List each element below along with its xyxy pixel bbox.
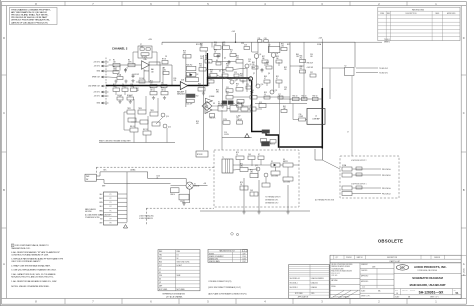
svg-text:SCHEMATIC DIAGRAM: SCHEMATIC DIAGRAM: [412, 276, 443, 280]
svg-text:R18: R18: [183, 51, 186, 53]
svg-text:NOT USED: NOT USED: [295, 293, 304, 295]
capacitor C54: [356, 186, 362, 189]
resistor R28: [223, 42, 230, 49]
ground: [221, 105, 224, 109]
svg-text:220: 220: [266, 64, 269, 66]
node +50V rail end: [355, 39, 390, 44]
resistor R26: [214, 42, 221, 49]
svg-text:330: 330: [240, 76, 243, 78]
resistor R57: [302, 95, 308, 100]
capacitor C152: [179, 194, 190, 203]
svg-text:C23: C23: [234, 72, 237, 74]
svg-text:P6: P6: [110, 214, 112, 216]
+50V rail wire: [148, 31, 355, 100]
svg-text:2K2: 2K2: [300, 58, 303, 60]
svg-text:5. REPLACE PARTS MARKED A AN: 5. REPLACE PARTS MARKED A AND FP WITH SA…: [11, 257, 63, 260]
svg-text:BRN: BRN: [99, 210, 102, 212]
capacitor C5: [139, 78, 145, 83]
svg-text:NOTES: UNLESS OTHERWISE SPECIF: NOTES: UNLESS OTHERWISE SPECIFIED.: [11, 286, 50, 288]
ground: [235, 77, 238, 81]
node label: [104, 170, 107, 172]
resistor R36: [199, 64, 206, 71]
resistor R14: [131, 84, 138, 91]
svg-text:1. ALL RESISTOR VALUES ARE IN: 1. ALL RESISTOR VALUES ARE IN OHMS 5%, 1…: [11, 280, 57, 283]
svg-text:R47: R47: [228, 78, 231, 80]
capacitor C15: [217, 54, 220, 59]
svg-text:R78 5W: R78 5W: [197, 154, 203, 156]
svg-text:C4: C4: [122, 84, 124, 86]
resistor R18: [183, 51, 191, 58]
svg-text:2ND SPKR OUT: 2ND SPKR OUT: [88, 86, 100, 88]
node label: [207, 74, 210, 78]
resistor R40: [226, 64, 233, 71]
svg-text:-IN CH 1: -IN CH 1: [94, 96, 100, 98]
svg-text:SH-126361-GX: SH-126361-GX: [290, 278, 300, 280]
application table: [289, 265, 330, 299]
svg-text:R12: R12: [113, 84, 116, 86]
svg-text:NOT USED: NOT USED: [159, 289, 168, 291]
ground: [129, 100, 132, 104]
resistor R56: [300, 56, 306, 63]
capacitor C13: [186, 99, 194, 105]
fuse F2: [342, 173, 352, 177]
ground: [257, 211, 260, 215]
svg-text:+IN CH 2: +IN CH 2: [93, 62, 100, 64]
transistor bank Q14-Q21: [124, 108, 171, 135]
resistor R3: [113, 67, 119, 74]
svg-text:2R2: 2R2: [250, 172, 253, 174]
svg-text:C32: C32: [310, 72, 313, 74]
svg-text:SH-12634-1: SH-12634-1: [290, 283, 298, 285]
resistor R63: [281, 110, 287, 113]
diode D7: [258, 154, 264, 159]
svg-text:-IN CH 2: -IN CH 2: [94, 66, 100, 68]
node label: [237, 116, 241, 118]
svg-text:R15: R15: [150, 81, 153, 83]
node psu labels: [265, 196, 280, 205]
svg-text:Q12: Q12: [275, 90, 278, 92]
resistor R52: [230, 102, 238, 111]
svg-text:R40: R40: [226, 64, 229, 66]
capacitor C46: [248, 154, 255, 159]
resistor R32: [205, 56, 212, 63]
capacitor C9: [161, 83, 167, 88]
svg-text:D10: D10: [237, 102, 240, 104]
svg-text:2K2: 2K2: [183, 53, 186, 55]
resistor R78: [196, 151, 208, 157]
capacitor C3: [132, 74, 139, 79]
tabulation block table: [208, 249, 248, 263]
svg-text:P2: P2: [110, 198, 112, 200]
wire to panel leds: [356, 68, 388, 75]
node label: [174, 78, 177, 82]
svg-text:SHEET 1 OF 1: SHEET 1 OF 1: [430, 296, 439, 298]
svg-text:10K: 10K: [150, 90, 153, 92]
svg-text:TO CH 1: TO CH 1: [384, 39, 390, 41]
svg-text:D4: D4: [159, 279, 161, 281]
svg-text:R41: R41: [252, 62, 255, 64]
node label: [310, 54, 313, 58]
svg-text:R54: R54: [241, 103, 244, 105]
thermal breaker S3: [262, 142, 270, 147]
svg-text:R43: R43: [266, 62, 269, 64]
svg-text:10U: 10U: [248, 61, 251, 63]
svg-text:Q7: Q7: [253, 73, 255, 75]
svg-text:47: 47: [264, 78, 266, 80]
svg-text:A: A: [3, 262, 5, 266]
svg-text:R17: R17: [136, 88, 139, 90]
svg-text:TO LED CH 2: TO LED CH 2: [379, 68, 388, 70]
wire driver cluster interconnect: [206, 42, 290, 105]
bias amp Q5: [205, 95, 214, 103]
svg-text:1K: 1K: [230, 52, 232, 54]
node label: [109, 59, 111, 61]
svg-text:VENDOR: VENDOR: [434, 257, 440, 259]
svg-text:L1: L1: [159, 268, 161, 270]
wire input stage lower: [116, 86, 134, 98]
svg-text:REFERENCE DESIGNATION: REFERENCE DESIGNATION: [163, 293, 186, 296]
svg-text:R32: R32: [159, 258, 162, 260]
ground: [152, 96, 155, 100]
resistor R70: [240, 164, 248, 172]
svg-text:R37: R37: [262, 56, 265, 58]
diode D2: [186, 72, 198, 76]
node label: [253, 73, 255, 75]
svg-text:560: 560: [262, 58, 265, 60]
transistor Q4: [271, 53, 278, 58]
svg-text:C30: C30: [299, 114, 302, 116]
power supply boundary (dashed): [214, 150, 299, 207]
svg-text:PIN 3 CH 2-B: PIN 3 CH 2-B: [382, 175, 390, 177]
svg-text:C29: C29: [284, 87, 287, 89]
svg-text:MODEL: MODEL: [209, 253, 215, 255]
svg-text:PIN 3 CH 1-B: PIN 3 CH 1-B: [382, 193, 390, 195]
svg-text:WHT: WHT: [99, 198, 102, 200]
capacitor C48: [250, 190, 258, 196]
svg-text:1K: 1K: [240, 184, 242, 186]
wire psu interconnect: [233, 160, 299, 197]
ground: [202, 92, 205, 96]
svg-text:CHECKED: CHECKED: [361, 270, 367, 272]
svg-text:10K: 10K: [151, 72, 154, 74]
svg-text:C17: C17: [159, 265, 162, 267]
svg-text:R47: R47: [222, 70, 225, 72]
svg-text:BRIDGE: BRIDGE: [194, 186, 199, 188]
svg-text:QTY A & B CHANNEL: QTY A & B CHANNEL: [166, 295, 183, 298]
svg-text:R31: R31: [287, 44, 290, 46]
svg-text:47P: 47P: [122, 86, 125, 88]
svg-text:R7 1K: R7 1K: [162, 59, 166, 61]
svg-text:R26: R26: [214, 42, 217, 44]
svg-text:C14: C14: [200, 56, 203, 58]
resistor R58: [300, 66, 306, 73]
diode D4: [250, 105, 256, 111]
svg-text:53UF: 53UF: [177, 275, 181, 277]
wire main signal path (heavy): [106, 53, 322, 150]
resistor R51B: [237, 100, 244, 106]
resistor R62: [261, 139, 267, 145]
svg-text:SH-126361: SH-126361: [464, 268, 466, 276]
svg-text:C27: C27: [278, 94, 281, 96]
svg-text:B: B: [3, 188, 5, 192]
transistor Q22: [255, 165, 260, 171]
node label: [284, 87, 287, 91]
svg-text:R25 10K: R25 10K: [196, 44, 202, 46]
op-amp U2A: [142, 58, 150, 73]
side drawing number tab: [461, 255, 466, 276]
resistor R5: [128, 60, 135, 67]
fuse F1: [342, 164, 352, 171]
svg-text:47P: 47P: [284, 89, 287, 91]
svg-text:D1: D1: [177, 255, 179, 257]
node label: [130, 169, 136, 172]
svg-text:REVISIONS: REVISIONS: [412, 9, 424, 11]
svg-text:R70: R70: [240, 164, 243, 166]
svg-text:DWG NO.: DWG NO.: [410, 290, 416, 292]
svg-text:OBSOLETE: OBSOLETE: [378, 239, 403, 244]
svg-text:C16: C16: [248, 59, 251, 61]
svg-text:12-4: 12-4: [362, 287, 365, 289]
svg-text:SPKR OUT: SPKR OUT: [92, 77, 100, 79]
node main signal note: [99, 139, 131, 142]
svg-text:COMP: COMP: [299, 116, 304, 118]
svg-text:JMP: JMP: [159, 286, 162, 288]
diode D9: [237, 117, 243, 124]
svg-text:BLK: BLK: [104, 170, 107, 172]
svg-text:1N4148: 1N4148: [237, 119, 242, 121]
resistor R49: [264, 76, 270, 83]
wire relay row: [212, 109, 262, 111]
svg-text:Q4: Q4: [276, 53, 278, 55]
svg-text:51: 51: [456, 291, 459, 295]
svg-text:P3: P3: [110, 202, 112, 204]
svg-text:LOW FROM OUTPUT 2: LOW FROM OUTPUT 2: [351, 160, 367, 162]
svg-text:JACK PLANE 16 PIN HEADER CONNE: JACK PLANE 16 PIN HEADER CONNECTOR (P2): [208, 292, 247, 295]
svg-text:R45: R45: [208, 76, 211, 78]
resistor R51: [276, 76, 282, 83]
ground: [163, 96, 166, 100]
svg-text:47K: 47K: [196, 123, 199, 125]
svg-text:REF: REF: [159, 251, 162, 253]
svg-text:4. HEAVY LINE SHOWS MAIN SIGNA: 4. HEAVY LINE SHOWS MAIN SIGNAL PATH.: [11, 264, 51, 267]
svg-text:PRODUCED IN WHOLE OR IN PART: PRODUCED IN WHOLE OR IN PART: [11, 16, 48, 19]
wire bridge connections: [171, 179, 208, 203]
svg-text:10K: 10K: [161, 90, 164, 92]
node label: [248, 59, 251, 63]
resistor R24: [200, 44, 208, 51]
svg-text:GRN: GRN: [99, 202, 102, 204]
svg-text:C42 10KU: C42 10KU: [283, 182, 290, 184]
svg-text:R76: R76: [240, 182, 243, 184]
svg-text:2R2: 2R2: [240, 166, 243, 168]
svg-text:GROUND: GROUND: [85, 211, 93, 213]
svg-text:1266: 1266: [242, 259, 246, 261]
node label: [209, 170, 211, 172]
node label: [102, 185, 105, 187]
resistor R34: [236, 56, 243, 63]
svg-text:1K0: 1K0: [281, 46, 284, 48]
wire connector bus: [127, 172, 130, 222]
svg-text:R72: R72: [250, 170, 253, 172]
node label: [200, 56, 203, 60]
connector P1 (power input): [99, 192, 127, 225]
wire k2 drop: [351, 76, 353, 156]
wire k2 feed: [322, 68, 345, 99]
svg-text:FINISH: FINISH: [331, 286, 335, 288]
capacitor C32: [310, 72, 316, 77]
svg-text:R54: R54: [251, 90, 254, 92]
svg-text:10K: 10K: [200, 46, 203, 48]
svg-text:220: 220: [284, 69, 287, 71]
svg-text:R32: R32: [205, 56, 208, 58]
svg-text:ITEM NO: ITEM NO: [346, 257, 353, 259]
node label: [136, 88, 139, 92]
svg-text:C3 39P: C3 39P: [134, 74, 139, 76]
svg-text:R19: R19: [174, 78, 177, 80]
svg-text:C: C: [3, 111, 5, 115]
resistor R48: [250, 92, 257, 99]
inductor L2 comp amp box: [307, 109, 325, 125]
resistor R38: [210, 70, 217, 77]
svg-text:220: 220: [198, 86, 201, 88]
svg-text:ZATION OF QSC AUDIO PRODUCTS.: ZATION OF QSC AUDIO PRODUCTS.: [11, 21, 48, 24]
svg-text:1/16 .XX .01 1: 1/16 .XX .01 1: [331, 273, 340, 275]
svg-text:V1: V1: [159, 272, 161, 274]
connector J3 AC power switch: [85, 174, 100, 181]
resistor R16: [127, 95, 134, 100]
svg-text:USE: USE: [177, 251, 180, 253]
resistor R9: [163, 68, 169, 75]
svg-text:PRODUCTS AND SHALL NOT BE RE-: PRODUCTS AND SHALL NOT BE RE-: [11, 14, 48, 17]
svg-text:R34: R34: [236, 56, 239, 58]
svg-text:T1: T1: [222, 157, 224, 159]
capacitor C40: [271, 171, 280, 178]
svg-text:C17B: C17B: [223, 119, 227, 121]
resistor R42: [240, 74, 247, 81]
svg-text:D4 HL7: D4 HL7: [177, 265, 183, 267]
node label: [347, 132, 349, 134]
ground: [114, 80, 117, 84]
svg-text:47: 47: [236, 86, 238, 88]
svg-text:QUICK DISCONNECT TERMINALS (J1: QUICK DISCONNECT TERMINALS (J1-J7): [208, 286, 241, 289]
svg-text:C6 10U: C6 10U: [117, 95, 122, 97]
svg-text:Q22: Q22: [255, 165, 258, 167]
resistor R33: [214, 50, 220, 57]
svg-text:D5: D5: [271, 161, 273, 163]
parts list strip: [330, 255, 461, 263]
capacitor C26: [264, 38, 268, 43]
resistor R50: [236, 84, 243, 91]
svg-text:C7: C7: [140, 44, 142, 46]
note box: reproduction warning: [10, 8, 58, 25]
node label: [196, 121, 199, 125]
svg-text:# PIN MSB CONNECTOR (P1): # PIN MSB CONNECTOR (P1): [208, 281, 232, 283]
svg-text:C34: C34: [310, 54, 313, 56]
svg-text:QSC: QSC: [400, 266, 406, 269]
svg-text:P4: P4: [110, 206, 112, 208]
svg-text:Q7: Q7: [159, 282, 161, 284]
svg-text:AUDIO PRODUCTS, INC.: AUDIO PRODUCTS, INC.: [414, 265, 447, 269]
op-amp U2B main stage: [177, 80, 188, 96]
svg-text:+50V: +50V: [232, 31, 236, 33]
svg-text:WHT: WHT: [102, 185, 105, 187]
svg-text:1K2: 1K2: [136, 90, 139, 92]
svg-text:10K: 10K: [113, 62, 116, 64]
general notes: [11, 244, 63, 288]
node label: [283, 106, 286, 110]
svg-text:TIP35: TIP35: [150, 110, 154, 112]
warning triangle: [245, 134, 250, 138]
resistor R74: [236, 152, 244, 159]
svg-text:UNLESS OTHERWISE SPECIFIED: UNLESS OTHERWISE SPECIFIED: [331, 264, 352, 266]
svg-text:R38: R38: [210, 70, 213, 72]
wire protection band: [207, 103, 252, 150]
svg-text:10U: 10U: [310, 56, 313, 58]
node label: [216, 90, 219, 94]
transistor Q8: [230, 80, 237, 84]
node label: [296, 54, 299, 58]
wire +50V feed verticals: [186, 55, 204, 150]
svg-text:B: B: [463, 188, 465, 192]
svg-text:R59 10: R59 10: [313, 95, 318, 97]
svg-text:R35: R35: [230, 50, 233, 52]
svg-text:DESCRIPTION: DESCRIPTION: [406, 13, 418, 15]
svg-text:NON-ELECTROLYTIC AND 25V ELECT: NON-ELECTROLYTIC AND 25V ELECTROLYTIC.: [11, 276, 54, 279]
svg-text:REV: REV: [387, 13, 390, 15]
svg-text:FSCM NO.: FSCM NO.: [402, 290, 408, 292]
svg-text:J2: J2: [109, 59, 111, 61]
svg-text:K1: K1: [218, 102, 220, 104]
svg-text:ONLY CH2 2T-HC: ONLY CH2 2T-HC: [177, 261, 191, 263]
svg-text:TR1: TR1: [159, 255, 162, 257]
svg-text:1K5: 1K5: [199, 66, 202, 68]
svg-text:0R5: 0R5: [216, 92, 219, 94]
svg-text:+50V: +50V: [319, 37, 323, 39]
diode D3: [216, 60, 221, 65]
svg-text:10U: 10U: [200, 58, 203, 60]
node label: [241, 43, 244, 45]
diode D6: [283, 159, 293, 167]
balance network box: [149, 62, 160, 82]
svg-text:R30: R30: [281, 44, 284, 46]
transistor Q10: [256, 84, 263, 88]
resistor R80: [171, 188, 180, 196]
svg-text:680: 680: [210, 72, 213, 74]
svg-text:FOR COMPONENT VALUE, REFER TO: FOR COMPONENT VALUE, REFER TO: [15, 244, 49, 247]
svg-text:100: 100: [226, 94, 229, 96]
svg-text:MAIN BOARD, USA498 AMP: MAIN BOARD, USA498 AMP: [410, 283, 446, 287]
fuse F4: [342, 192, 352, 196]
svg-text:NOT USED: NOT USED: [177, 289, 186, 291]
capacitor C27: [278, 94, 283, 99]
resistor R30: [281, 44, 287, 51]
svg-text:D8: D8: [213, 103, 215, 105]
node label: [196, 44, 202, 46]
svg-text:R80 10: R80 10: [171, 194, 176, 196]
resistor R55: [293, 95, 300, 100]
resistor R11: [150, 88, 157, 95]
svg-text:D9: D9: [237, 117, 239, 119]
svg-text:4K7: 4K7: [208, 78, 211, 80]
svg-text:Q3: Q3: [259, 54, 261, 56]
svg-text:SIZE: SIZE: [395, 290, 398, 292]
svg-text:2K2: 2K2: [236, 58, 239, 60]
chassis boundary (dashed): [96, 167, 214, 225]
svg-text:C153: C153: [156, 176, 160, 178]
svg-text:6. ALL RESISTORS MARKED "FP" A: 6. ALL RESISTORS MARKED "FP" ARE "FLAMEP…: [11, 251, 60, 254]
svg-text:TIP36: TIP36: [138, 108, 142, 110]
node low impedance label: [351, 160, 367, 162]
